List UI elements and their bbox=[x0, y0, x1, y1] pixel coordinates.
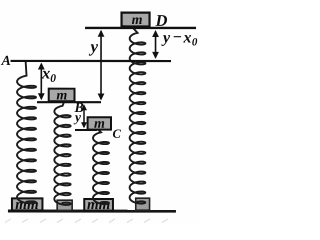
ground hatching bbox=[5, 219, 168, 223]
arrow y-x0 (top line down to A) bbox=[152, 30, 159, 59]
arrow x0 (A down to B) bbox=[38, 62, 45, 100]
small arrow y (B down to C) bbox=[81, 104, 87, 128]
svg-text:mm: mm bbox=[87, 197, 110, 213]
line A bbox=[11, 60, 172, 62]
label y (small arrow) bbox=[73, 109, 82, 124]
bottom block mm under spring 3 bbox=[84, 197, 113, 213]
svg-text:y: y bbox=[161, 30, 171, 47]
bottom block under spring 2 bbox=[57, 200, 72, 210]
spring 3 (under mass C) bbox=[93, 130, 109, 204]
label y (long arrow) bbox=[89, 37, 99, 56]
top platform line (level D) bbox=[85, 27, 196, 29]
spring 4 (tall, under line D) bbox=[130, 29, 146, 204]
svg-text:A: A bbox=[1, 54, 11, 69]
svg-text:−: − bbox=[172, 29, 182, 46]
label y minus x0 bbox=[161, 29, 198, 48]
svg-text:y: y bbox=[89, 37, 99, 56]
svg-text:0: 0 bbox=[192, 36, 198, 48]
mass m on line D bbox=[122, 13, 150, 28]
bottom block under spring 4 bbox=[136, 198, 150, 210]
label A bbox=[1, 54, 11, 69]
label x0 bbox=[41, 63, 56, 84]
spring 1 (leftmost, top attached to line A) bbox=[17, 61, 36, 203]
svg-text:C: C bbox=[112, 127, 121, 141]
spring 2 (under mass B) bbox=[54, 103, 70, 204]
arrow y (top line down to B) bbox=[98, 30, 105, 101]
bottom block mm under spring 1 bbox=[12, 197, 43, 213]
label C bbox=[112, 127, 121, 141]
svg-text:D: D bbox=[155, 11, 168, 30]
svg-text:x: x bbox=[183, 30, 192, 47]
svg-text:y: y bbox=[73, 109, 82, 124]
line B bbox=[37, 101, 101, 103]
label D bbox=[155, 11, 168, 30]
label B bbox=[73, 101, 83, 116]
line C bbox=[75, 129, 97, 131]
svg-text:m: m bbox=[132, 13, 143, 28]
mass m at B bbox=[49, 88, 75, 103]
svg-text:m: m bbox=[56, 88, 67, 103]
svg-text:m: m bbox=[94, 117, 105, 132]
mass m at C bbox=[88, 117, 111, 132]
ground line bbox=[8, 210, 176, 213]
